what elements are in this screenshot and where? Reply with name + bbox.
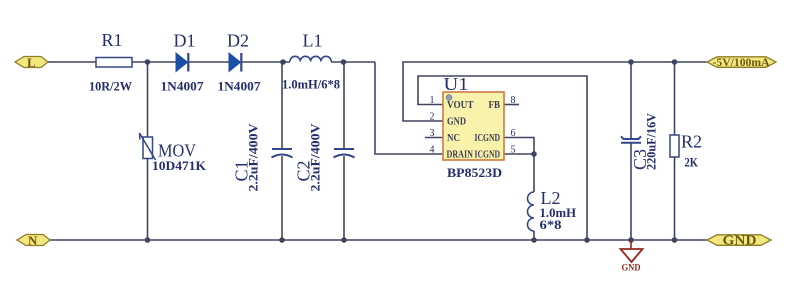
wire ICGND pin5: [504, 153, 534, 155]
resistor R2: [670, 62, 702, 240]
svg-text:1N4007: 1N4007: [161, 79, 205, 94]
terminal L: [15, 55, 48, 70]
node C1 top: [280, 59, 286, 65]
svg-text:FB: FB: [489, 100, 501, 111]
inductor L2: [528, 188, 577, 232]
terminal -5V/100mA: [707, 55, 776, 69]
node -5V rail at C3: [628, 59, 634, 65]
svg-text:BP8523D: BP8523D: [447, 165, 502, 180]
diode D1: [161, 31, 205, 94]
svg-text:1: 1: [430, 95, 435, 106]
svg-text:ICGND: ICGND: [475, 149, 501, 160]
resistor R1: [89, 30, 132, 94]
svg-text:VOUT: VOUT: [447, 100, 474, 111]
svg-text:1.0mH/6*8: 1.0mH/6*8: [282, 77, 340, 92]
wire R1 to D1: [132, 61, 176, 63]
varistor MOV: [140, 133, 207, 173]
wire D2 to node: [242, 61, 290, 63]
op-amp U1: [430, 74, 516, 180]
wire ICGND pin6: [504, 138, 534, 155]
svg-text:10D471K: 10D471K: [152, 158, 207, 173]
wire GND pin2 to -5V rail: [403, 62, 707, 121]
svg-text:10R/2W: 10R/2W: [89, 79, 132, 94]
node C2 top: [341, 59, 347, 65]
svg-text:U1: U1: [444, 74, 469, 94]
capacitor C2: [294, 62, 355, 240]
wire MOV branch: [147, 62, 149, 240]
terminal N: [17, 233, 50, 248]
wire down to L2: [533, 154, 535, 192]
svg-text:6*8: 6*8: [540, 217, 563, 232]
svg-text:4: 4: [430, 144, 435, 155]
svg-text:R2: R2: [681, 132, 702, 152]
capacitor C3: [621, 62, 659, 240]
wire VOUT pin1 loop to bottom rail: [418, 76, 587, 240]
svg-text:2.2uF/400V: 2.2uF/400V: [308, 123, 323, 192]
wire bottom rail: [50, 239, 707, 241]
svg-text:GND: GND: [622, 264, 641, 274]
svg-text:8: 8: [511, 95, 516, 106]
node bottom L2: [531, 237, 537, 243]
wire L1 right: [331, 61, 375, 63]
node bottom R2: [672, 237, 678, 243]
svg-text:GND: GND: [447, 116, 466, 127]
svg-text:5: 5: [511, 144, 516, 155]
node pins 5-6 junction: [531, 151, 537, 157]
wire to DRAIN pin 4: [375, 62, 443, 154]
svg-text:N: N: [28, 233, 38, 248]
node -5V rail at R2: [672, 59, 678, 65]
wire FB pin8 stub: [504, 104, 519, 106]
svg-text:R1: R1: [102, 30, 123, 50]
wire L to R1: [48, 61, 96, 63]
svg-text:2: 2: [430, 111, 435, 122]
diode D2: [218, 31, 262, 94]
svg-text:NC: NC: [447, 133, 460, 144]
svg-text:D1: D1: [174, 31, 196, 51]
terminal GND: [707, 233, 771, 248]
node bottom VOUT loop: [584, 237, 590, 243]
node bottom C3: [628, 237, 634, 243]
svg-text:1N4007: 1N4007: [218, 79, 262, 94]
ground: [621, 240, 643, 274]
capacitor C1: [232, 62, 293, 240]
wire NC pin3 stub: [425, 137, 443, 139]
node bottom C1: [279, 237, 285, 243]
node bottom C2: [341, 237, 347, 243]
svg-text:DRAIN: DRAIN: [447, 149, 474, 160]
svg-text:-5V/100mA: -5V/100mA: [713, 55, 770, 69]
svg-text:3: 3: [430, 128, 435, 139]
svg-text:2K: 2K: [685, 155, 699, 170]
svg-text:D2: D2: [227, 31, 249, 51]
wire D1 to D2: [189, 61, 229, 63]
svg-text:L1: L1: [303, 31, 323, 51]
svg-text:2.2uF/400V: 2.2uF/400V: [246, 123, 261, 192]
inductor L1: [282, 31, 340, 92]
node MOV tap: [145, 59, 151, 65]
svg-text:220uF/16V: 220uF/16V: [644, 112, 659, 170]
svg-text:6: 6: [511, 128, 516, 139]
svg-text:GND: GND: [723, 233, 757, 248]
wire L2 to bottom rail: [533, 231, 535, 240]
svg-text:L: L: [27, 55, 36, 70]
svg-text:ICGND: ICGND: [475, 133, 501, 144]
node bottom MOV: [145, 237, 151, 243]
